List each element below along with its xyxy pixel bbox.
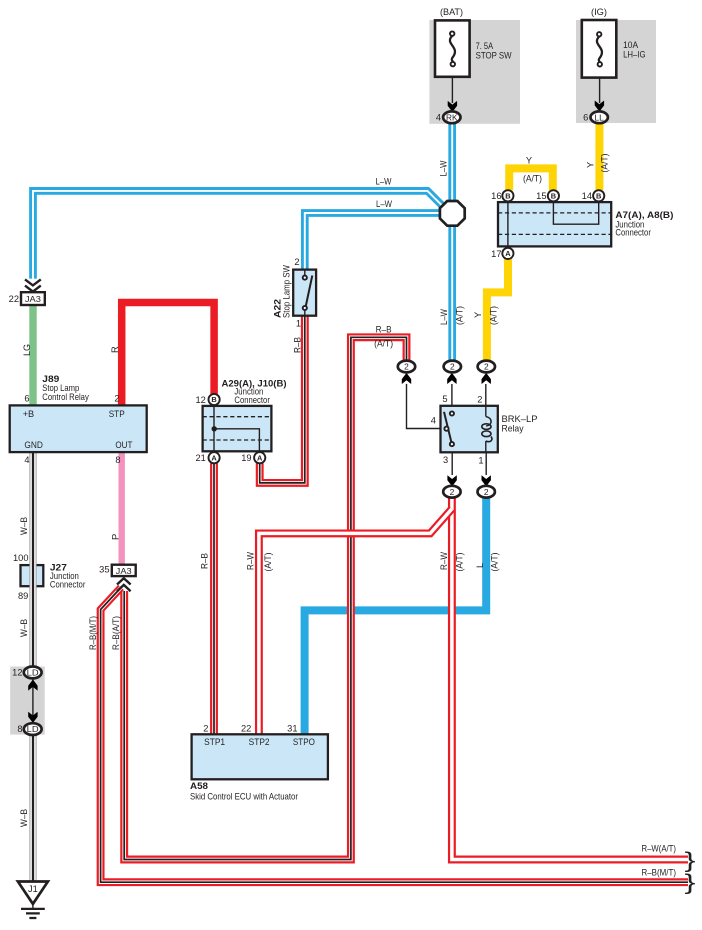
svg-text:L–W: L–W xyxy=(376,199,392,209)
connector oval 2 (pin 3) xyxy=(443,486,460,498)
ground stem xyxy=(32,904,34,909)
svg-text:2: 2 xyxy=(404,362,409,372)
svg-text:W–B: W–B xyxy=(19,517,29,535)
fuse block shading (BAT) xyxy=(429,20,520,124)
svg-text:L–W: L–W xyxy=(439,309,449,325)
connector oval 2 (pin 1) xyxy=(478,486,495,498)
svg-text:R–W(A/T): R–W(A/T) xyxy=(642,843,677,853)
svg-text:R: R xyxy=(110,346,120,353)
svg-text:LD: LD xyxy=(27,667,39,677)
svg-text:W–B: W–B xyxy=(19,809,29,827)
svg-text:2: 2 xyxy=(114,394,119,404)
arrow into RK xyxy=(448,101,457,112)
node (A29 internal junction dot) xyxy=(212,426,217,431)
svg-text:Y: Y xyxy=(526,156,532,166)
svg-text:(IG): (IG) xyxy=(591,7,607,17)
connector LD (8) xyxy=(24,723,42,735)
svg-text:4: 4 xyxy=(431,416,436,426)
node junction octagon xyxy=(440,201,465,226)
svg-text:(A/T): (A/T) xyxy=(455,553,465,572)
wire R-B (M/T) (JA3 35 down and right to harness continuation) xyxy=(101,588,688,883)
wire (relay pin 1 lead) xyxy=(485,452,487,475)
svg-text:2: 2 xyxy=(484,487,489,497)
wire Y (A/T) (pin 17 down to BRK-LP relay pin 2 connector) xyxy=(487,259,508,361)
svg-text:STPO: STPO xyxy=(293,737,315,747)
svg-text:Skid Control ECU with Actuator: Skid Control ECU with Actuator xyxy=(190,792,298,802)
relay J89 Stop Lamp Control Relay xyxy=(10,405,147,452)
connector LD (12) xyxy=(24,667,42,679)
wire R-B (A/T) (relay pin 4 connector up over and down to JA3 35) xyxy=(124,337,406,859)
svg-text:Connector: Connector xyxy=(615,228,651,238)
svg-text:L–W: L–W xyxy=(439,160,449,176)
svg-text:15: 15 xyxy=(536,191,546,201)
wire (relay pin 2 lead) xyxy=(485,384,487,406)
pin 17 circle A xyxy=(502,248,513,259)
ground J1 triangle xyxy=(18,882,48,904)
svg-text:B: B xyxy=(211,395,216,404)
wire W-B (J89 GND down to LD splice) xyxy=(29,452,36,667)
svg-text:A: A xyxy=(257,453,263,462)
svg-text:GND: GND xyxy=(24,440,43,450)
junction connector A7/A8 internal link 15-14 xyxy=(553,196,598,224)
svg-text:B: B xyxy=(505,192,510,201)
wire R (J89 STP to junction connector pin 12) xyxy=(122,303,214,406)
switch A22 Stop Lamp SW xyxy=(293,270,316,316)
wire (relay pin 4 connector lead) xyxy=(407,384,445,429)
svg-text:2: 2 xyxy=(450,362,455,372)
arrow into oval 2 (relay pin 4 feed) xyxy=(402,373,411,384)
svg-text:2: 2 xyxy=(294,257,299,267)
svg-text:12: 12 xyxy=(12,667,22,677)
relay BRK-LP switch contact xyxy=(444,412,451,442)
svg-text:LL: LL xyxy=(594,112,604,122)
svg-text:JA3: JA3 xyxy=(116,566,132,576)
svg-text:1: 1 xyxy=(478,456,483,466)
svg-text:STOP SW: STOP SW xyxy=(476,51,512,61)
connector oval 2 (pin 2) xyxy=(478,361,495,373)
ECU A58 Skid Control ECU with Actuator xyxy=(192,734,328,779)
arrow into LL xyxy=(595,101,604,112)
svg-text:Y: Y xyxy=(473,312,483,318)
junction connector A7(A), A8(B) xyxy=(498,202,611,246)
splice shading box (LD) xyxy=(10,667,45,735)
svg-text:8: 8 xyxy=(17,724,22,734)
svg-text:LD: LD xyxy=(27,724,39,734)
switch A22 contacts xyxy=(304,270,306,316)
junction connector A29 internal link to 19 xyxy=(214,429,259,452)
junction connector A7/A8 internal link 16-17 xyxy=(507,196,509,252)
svg-text:STP1: STP1 xyxy=(204,737,225,747)
svg-text:Y: Y xyxy=(585,162,595,168)
svg-text:J1: J1 xyxy=(28,884,38,894)
wire R-B (A22 pin 1 down to junction pin 19) xyxy=(260,316,305,483)
svg-text:Connector: Connector xyxy=(50,579,86,589)
svg-text:R–B(M/T): R–B(M/T) xyxy=(88,616,98,650)
svg-text:35: 35 xyxy=(99,564,109,574)
svg-text:R–B(M/T): R–B(M/T) xyxy=(642,868,677,878)
svg-text:5: 5 xyxy=(442,394,447,404)
junction connector A29 dashed rows xyxy=(203,417,272,440)
svg-text:(A/T): (A/T) xyxy=(523,174,542,184)
wire Y (A/T) (pin 16 to pin 15 loop) xyxy=(509,168,553,190)
wire P (J89 OUT to JA3 35) xyxy=(118,452,124,565)
arrow out of relay pin 1 xyxy=(482,475,491,486)
svg-text:OUT: OUT xyxy=(115,440,132,450)
svg-text:}: } xyxy=(685,870,696,894)
connector RK xyxy=(443,111,460,123)
svg-text:6: 6 xyxy=(583,113,588,123)
svg-text:(A/T): (A/T) xyxy=(374,339,393,349)
junction connector A29(A), J10(B) xyxy=(203,406,272,451)
pin 12 circle B xyxy=(209,394,220,405)
svg-text:(A/T): (A/T) xyxy=(600,154,610,173)
svg-text:R–B: R–B xyxy=(200,553,210,569)
fuse 10A element xyxy=(597,37,602,63)
svg-text:31: 31 xyxy=(287,723,297,733)
svg-text:10A: 10A xyxy=(623,40,639,50)
wire (relay pin 3 lead) xyxy=(451,452,453,475)
svg-text:21: 21 xyxy=(195,453,205,463)
svg-text:8: 8 xyxy=(115,455,120,465)
wire L-W (BAT fuse to stop lamp switch net, vertical through junction node) xyxy=(448,123,456,361)
svg-text:LG: LG xyxy=(22,344,32,356)
svg-text:1: 1 xyxy=(296,319,301,329)
relay BRK-LP coil xyxy=(485,406,487,417)
svg-text:2: 2 xyxy=(477,394,482,404)
connector oval 2 (pin 5) xyxy=(444,361,461,373)
svg-text:17: 17 xyxy=(491,249,501,259)
connector LL xyxy=(591,111,608,123)
svg-text:B: B xyxy=(596,192,601,201)
fuse 10A LH-IG body xyxy=(582,20,617,78)
svg-text:19: 19 xyxy=(241,453,251,463)
relay BRK-LP xyxy=(441,406,498,453)
pin 16 circle B xyxy=(502,190,513,201)
wire W-B (LD splice down to ground J1) xyxy=(29,735,36,882)
svg-text:L–W: L–W xyxy=(376,177,392,187)
svg-text:14: 14 xyxy=(582,191,592,201)
svg-text:(BAT): (BAT) xyxy=(440,7,463,17)
svg-text:Connector: Connector xyxy=(234,395,270,405)
svg-text:22: 22 xyxy=(241,723,251,733)
wire LG (JA3 22 to J89 +B) xyxy=(29,305,36,405)
svg-text:JA3: JA3 xyxy=(25,294,41,304)
svg-text:L: L xyxy=(475,563,485,568)
wire L-W (node to JA3 22, upper horizontal) xyxy=(33,191,442,279)
ground hatching xyxy=(21,909,45,918)
svg-text:12: 12 xyxy=(195,395,205,405)
svg-text:2: 2 xyxy=(450,487,455,497)
svg-text:(A/T): (A/T) xyxy=(490,553,500,572)
svg-text:(A/T): (A/T) xyxy=(489,306,499,325)
wire (relay pin 5 lead) xyxy=(451,384,453,406)
wire L-W (node to A22 stop lamp switch pin 2) xyxy=(305,213,441,270)
svg-text:P: P xyxy=(111,534,121,540)
svg-text:89: 89 xyxy=(18,591,28,601)
arrow up at LD splice xyxy=(28,680,37,691)
arrow into oval 2 (relay pin 2 feed) xyxy=(482,373,491,384)
wire R-W (A/T) (relay pin 3 down to harness continuation) xyxy=(452,497,688,859)
arrow down at LD splice xyxy=(28,712,37,723)
svg-text:Relay: Relay xyxy=(502,423,524,433)
svg-text:4: 4 xyxy=(24,455,29,465)
pin 15 circle B xyxy=(548,190,559,201)
svg-text:+B: +B xyxy=(23,409,35,419)
svg-text:Stop Lamp SW: Stop Lamp SW xyxy=(282,265,292,318)
wire (fuse IG lead to connector LL) xyxy=(599,66,601,103)
svg-text:BRK–LP: BRK–LP xyxy=(502,414,538,424)
svg-text:16: 16 xyxy=(491,191,501,201)
connector oval 2 (pin 4) xyxy=(398,361,415,373)
svg-text:R–B: R–B xyxy=(376,324,392,334)
connector JA3 (22) box xyxy=(21,292,45,305)
svg-text:A: A xyxy=(505,249,511,258)
wire L (A/T) (relay pin 1 to ECU STPO) xyxy=(305,497,487,734)
wire R-W (branch to ECU STP2) xyxy=(259,509,452,735)
svg-text:Control Relay: Control Relay xyxy=(42,392,89,402)
svg-text:B: B xyxy=(551,192,556,201)
svg-text:2: 2 xyxy=(484,362,489,372)
wire (LD splice internal link) xyxy=(32,678,34,723)
svg-text:(A/T): (A/T) xyxy=(263,553,273,572)
svg-text:LH–IG: LH–IG xyxy=(623,50,646,60)
svg-text:R–W: R–W xyxy=(439,552,449,570)
fuse 7.5A element xyxy=(450,36,455,62)
wire Y (IG fuse LL down to pin 14) xyxy=(595,123,603,190)
fuse 7.5A STOP SW body xyxy=(435,20,470,76)
svg-text:}: } xyxy=(685,848,696,872)
svg-text:R–B(A/T): R–B(A/T) xyxy=(111,616,121,650)
connector JA3 (35) box xyxy=(112,565,136,576)
pin 14 circle B xyxy=(593,190,604,201)
svg-text:22: 22 xyxy=(9,294,19,304)
wire (fuse BAT lead to connector RK) xyxy=(451,66,453,103)
svg-text:W–B: W–B xyxy=(19,619,29,637)
pin 21 circle A xyxy=(209,452,220,463)
svg-text:A58: A58 xyxy=(190,781,208,791)
connector JA3 (22) chevrons xyxy=(25,279,41,291)
junction connector A7/A8 dashed rows xyxy=(498,213,611,235)
svg-text:(A/T): (A/T) xyxy=(455,306,465,325)
connector JA3 (35) chevrons xyxy=(117,578,131,591)
svg-text:STP2: STP2 xyxy=(249,737,270,747)
pin 19 circle A xyxy=(254,452,265,463)
svg-text:7. 5A: 7. 5A xyxy=(476,41,494,51)
svg-text:2: 2 xyxy=(203,723,208,733)
junction connector A29 internal link 12-21 xyxy=(213,400,215,458)
svg-text:6: 6 xyxy=(24,394,29,404)
svg-text:RK: RK xyxy=(446,112,458,122)
svg-text:4: 4 xyxy=(436,113,441,123)
svg-text:A7(A), A8(B): A7(A), A8(B) xyxy=(615,210,673,220)
svg-text:R–B: R–B xyxy=(293,337,303,353)
svg-text:STP: STP xyxy=(109,409,125,419)
junction connector J27 xyxy=(21,565,44,586)
fuse block shading (IG) xyxy=(576,20,656,123)
svg-text:3: 3 xyxy=(443,455,448,465)
svg-text:A: A xyxy=(211,453,217,462)
wire R-B (junction pin 21 to ECU STP1) xyxy=(210,463,218,734)
arrow out of relay pin 3 xyxy=(447,475,456,486)
svg-text:100: 100 xyxy=(13,553,29,563)
svg-text:R–W: R–W xyxy=(246,552,256,570)
arrow into oval 2 (relay pin 5 feed) xyxy=(447,373,456,384)
